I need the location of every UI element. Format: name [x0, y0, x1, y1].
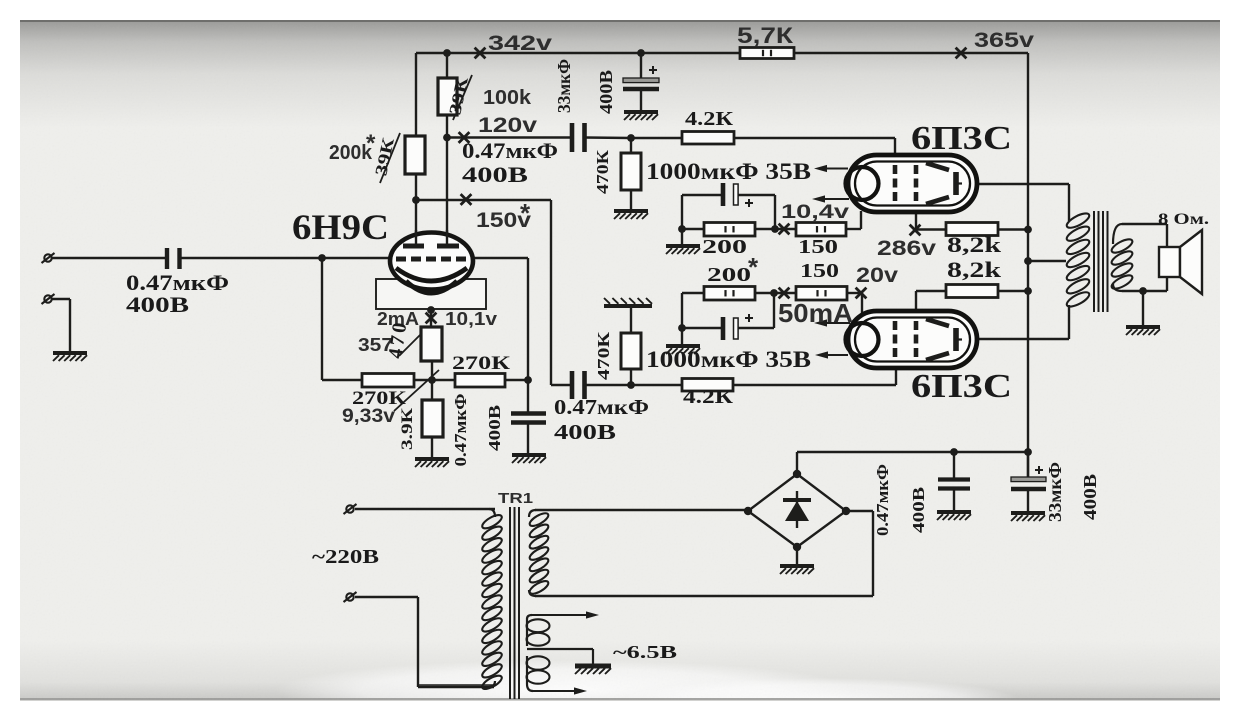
wire: 120v node to coupling cap	[447, 136, 572, 138]
svg-text:1000мкФ 35В: 1000мкФ 35В	[646, 159, 811, 184]
capacitor 0.47uF input	[167, 248, 180, 269]
wire: 6N9S cathode node stems (470 above, 3.9K below)	[431, 310, 432, 459]
wire: 200k resistor to 150v node	[415, 174, 417, 201]
wire: 150 up to upper tube cathode	[860, 211, 862, 229]
wire: lower screen to 8.2k to B+	[916, 291, 1028, 312]
svg-text:150: 150	[800, 260, 839, 282]
label 10,4v	[781, 201, 849, 223]
capacitor 0.47uF 400V cathodyne ground cap	[511, 414, 546, 423]
output transformer primary	[1065, 211, 1091, 310]
wire: PSU 0.47uF cap stems	[953, 452, 955, 512]
wire: 150v line down right side	[551, 200, 572, 385]
resistor 470K upper	[621, 153, 641, 190]
x-mark 20v	[856, 288, 867, 299]
node: upper bias left junction	[678, 225, 686, 233]
svg-text:286v: 286v	[877, 237, 936, 260]
resistor 39K/100k	[438, 78, 457, 115]
capacitor 33uF 400V PSU electrolytic (plus sign)	[1011, 466, 1046, 489]
wire: lower plate to output transformer primary bottom	[957, 305, 1069, 339]
svg-text:1000мкФ 35В: 1000мкФ 35В	[646, 347, 811, 372]
label 150v	[476, 198, 531, 232]
svg-text:9,33v: 9,33v	[342, 406, 395, 427]
svg-text:33мкФ: 33мкФ	[1045, 462, 1065, 522]
label 270K left	[352, 388, 406, 409]
output transformer secondary	[1110, 237, 1134, 292]
wire: mains terminal 1 to TR1 primary	[355, 509, 495, 517]
svg-text:3.9К: 3.9К	[399, 407, 416, 450]
label PSU 33uF rotated	[1045, 462, 1065, 522]
svg-text:8,2k: 8,2k	[947, 257, 1002, 282]
x-mark 342v	[475, 48, 486, 59]
wire: +342v top rail	[416, 52, 1028, 54]
wire: HV secondary bottom around to bridge right	[529, 511, 873, 596]
ground: heater winding tap	[575, 649, 611, 674]
svg-text:20v: 20v	[856, 264, 898, 287]
svg-text:8,2k: 8,2k	[947, 232, 1002, 257]
label TR1	[498, 490, 533, 507]
wire: mains terminal 2 around to TR1 primary bottom	[355, 597, 495, 687]
output transformer core	[1094, 211, 1108, 312]
op-amp/tube 6N9S socket box	[376, 279, 486, 309]
wire: lower 6P3S grid stem	[895, 366, 897, 385]
x-mark 10.4v	[779, 224, 790, 235]
label 8,2k upper	[947, 232, 1002, 257]
label 0.47uF mid	[554, 395, 649, 419]
svg-text:8 Ом.: 8 Ом.	[1158, 211, 1209, 228]
ground: upper 470K	[614, 211, 648, 219]
label 0.47uF cathodyne rotated	[451, 394, 470, 467]
wire: 39K/100k down through 120v node to right plate stem	[446, 115, 448, 246]
svg-text:365v: 365v	[974, 29, 1034, 52]
ground: speaker return	[1126, 327, 1160, 335]
svg-text:*: *	[748, 252, 759, 282]
diode bridge rectifier	[744, 470, 850, 551]
mains terminal 1	[344, 504, 357, 514]
resistor 150 upper	[796, 223, 846, 237]
ground: PSU 33uF	[1011, 513, 1045, 521]
wire: upper 470K stems	[630, 138, 632, 211]
wire: second grid from tube right side down to junction	[471, 258, 528, 380]
svg-text:6П3С: 6П3С	[911, 120, 1012, 157]
wire: 33uF top cap stems	[640, 53, 642, 112]
wire: 150v node horizontal run	[416, 199, 551, 201]
label 33uF top rotated	[554, 59, 574, 113]
wire: upper screen 286v to 8.2k to B+	[916, 213, 1028, 230]
svg-text:400В: 400В	[909, 487, 928, 533]
wire: lower node to ground	[681, 328, 683, 346]
ground: bridge negative	[780, 566, 814, 574]
capacitor 0.47uF lower coupling	[572, 371, 585, 399]
x-mark 286v	[910, 225, 921, 236]
resistor 4.2K lower	[682, 379, 733, 392]
svg-text:270К: 270К	[452, 353, 510, 374]
ground: PSU 0.47uF	[937, 512, 971, 520]
wire: upper 1000uF cap leads	[682, 195, 775, 229]
svg-text:0.47мкФ: 0.47мкФ	[451, 394, 470, 467]
arrow: upper cathode to 1000uF 35V	[814, 165, 848, 172]
label 5,7K	[737, 23, 794, 48]
wire: B+ to primary center tap	[1028, 260, 1066, 262]
x-mark 365v	[956, 48, 967, 59]
svg-text:~6.5В: ~6.5В	[613, 642, 677, 662]
label 8,2k lower	[947, 257, 1002, 282]
ground: 33uF top cap	[624, 112, 658, 120]
label 6P3S upper	[911, 120, 1012, 157]
svg-text:50mA: 50mA	[778, 298, 853, 328]
label PSU 400V rotated	[909, 487, 928, 533]
label 400V cathodyne rotated	[485, 405, 504, 451]
wire: input line to grid of 6N9S	[51, 257, 392, 259]
wire: HV secondary top to bridge left	[529, 510, 748, 517]
label 9,33v	[342, 406, 395, 427]
ground: 3.9K cathode resistor	[415, 459, 449, 467]
label 4.2K lower	[683, 386, 734, 408]
label PSU 400V-2 rotated	[1080, 474, 1100, 520]
node: B+/8.2k upper junction	[1024, 226, 1032, 234]
tube V2 6P3S lower envelope	[846, 311, 978, 368]
svg-text:400В: 400В	[596, 70, 616, 114]
node: rail/39K junction	[443, 49, 451, 57]
resistor 270K right	[455, 374, 505, 388]
ground: lower 200 bias	[666, 346, 700, 354]
node: rectifier/0.47uF junction	[950, 448, 958, 456]
node: B+/8.2k lower junction	[1024, 287, 1032, 295]
label 342v	[488, 32, 552, 55]
label 200* lower	[707, 252, 759, 286]
svg-text:200: 200	[707, 264, 751, 286]
wire: 150 down to lower tube cathode	[861, 293, 863, 317]
capacitor 33uF 400V top electrolytic (plus sign)	[623, 66, 659, 89]
slash strike through 39K label (left)	[380, 133, 400, 183]
tube V1 6P3S upper envelope	[846, 155, 978, 212]
label 0.47uF top	[462, 138, 558, 163]
wire: left plate stem of 6N9S	[415, 200, 417, 246]
node: 6N9S cathode junction on socket box	[427, 306, 435, 314]
tube U1 6N9S envelope	[390, 233, 473, 290]
svg-text:6П3С: 6П3С	[911, 368, 1012, 405]
resistor 150 lower	[796, 287, 847, 301]
label 39K upper rotated	[445, 74, 472, 116]
label ~220V	[312, 546, 379, 568]
resistor 470K lower	[621, 333, 641, 369]
label 400V input	[126, 292, 189, 317]
wire: lower cathode network row 20v	[682, 292, 862, 294]
node: rectifier/B+ junction	[1024, 448, 1032, 456]
arrow: upper heater	[812, 195, 849, 202]
wire: rail down-left to 200k resistor	[415, 53, 417, 136]
resistor 8.2k lower	[946, 285, 998, 298]
x-mark 120v	[459, 132, 470, 143]
label 0.47uF input	[126, 270, 229, 295]
wire: lower coupling cap to lower 4.2K run	[585, 384, 896, 386]
node: upper 470K top junction	[627, 134, 635, 142]
x-mark 150v	[461, 194, 472, 205]
label 20v	[856, 264, 898, 287]
wire: upper cathode network row 10.4v	[682, 228, 861, 230]
svg-text:100k: 100k	[483, 87, 532, 109]
wire: lower 1000uF cap leads	[682, 293, 774, 328]
node: 120v junction	[443, 134, 451, 142]
ground: input jack	[53, 353, 87, 361]
slash strike through 39K label (upper)	[453, 75, 472, 120]
node: lower coupling junction	[627, 381, 635, 389]
node: rail/33uF junction	[637, 49, 645, 57]
wire: node to upper 4.2K and grid of upper 6P3S	[631, 137, 895, 139]
node: B+/center tap junction	[1024, 257, 1032, 265]
svg-text:6Н9С: 6Н9С	[292, 207, 389, 247]
label 10,1v	[445, 309, 497, 329]
label 1000uF 35V lower	[646, 347, 811, 372]
svg-text:400В: 400В	[554, 420, 616, 444]
label 39K left rotated	[371, 135, 398, 177]
label 470 rotated	[384, 318, 411, 360]
svg-text:10,1v: 10,1v	[445, 309, 497, 329]
ground: inverted, lower 470K	[604, 298, 652, 306]
resistor 200 lower	[704, 287, 755, 301]
svg-text:0.47мкФ: 0.47мкФ	[873, 464, 892, 536]
resistor 200 upper	[704, 223, 755, 237]
svg-text:470К: 470К	[593, 149, 612, 194]
wire: lower 470K stems (inverted ground above)	[630, 307, 632, 385]
arrow: lower cathode to 1000uF 35V	[815, 351, 848, 358]
svg-text:0.47мкФ: 0.47мкФ	[462, 138, 558, 163]
wire: junction down through 0.47uF 400V cap to ground	[527, 380, 529, 455]
wire: bridge bottom to ground	[796, 547, 798, 566]
label 286v	[877, 237, 936, 260]
label ~6.5V	[613, 642, 677, 662]
resistor 270K left	[362, 374, 414, 388]
label 120v	[478, 114, 537, 137]
transformer TR1 primary winding	[480, 512, 503, 691]
svg-text:~220В: ~220В	[312, 546, 379, 568]
label 150 lower	[800, 260, 839, 282]
wire: 270K row	[414, 379, 528, 381]
label 400V mid	[554, 420, 616, 444]
node: upper bias mid junction	[771, 225, 779, 233]
label 470K lower rotated	[594, 331, 613, 380]
label 2mA	[377, 309, 419, 329]
label 400V top rotated	[596, 70, 616, 114]
capacitor 1000uF 35V lower electrolytic	[723, 314, 753, 340]
wire: secondary to speaker top	[1113, 224, 1167, 248]
mains terminal 2	[344, 592, 357, 602]
x-mark 2mA/10.1v	[426, 313, 437, 324]
svg-text:400В: 400В	[462, 162, 528, 187]
node: grid2 junction	[524, 376, 532, 384]
label 357	[358, 335, 393, 355]
label 150 upper	[798, 236, 838, 258]
node: speaker ground junction	[1139, 287, 1147, 295]
svg-text:*: *	[366, 130, 376, 157]
svg-text:TR1: TR1	[498, 490, 533, 507]
tube 6N9S cathode arcs	[396, 268, 467, 293]
label 8 Ohm	[1158, 211, 1209, 228]
label 400V top	[462, 162, 528, 187]
svg-text:10,4v: 10,4v	[781, 201, 849, 223]
arrow: lower heater 50mA	[814, 319, 850, 326]
input terminal bottom	[42, 294, 55, 304]
resistor 4.2K upper	[682, 132, 734, 145]
node: lower bias mid junction	[770, 289, 778, 297]
svg-text:400В: 400В	[126, 292, 189, 317]
wire: upper node to ground	[681, 229, 683, 246]
resistor 8.2k upper	[946, 223, 998, 236]
svg-text:400В: 400В	[485, 405, 504, 451]
capacitor 0.47uF PSU	[938, 480, 970, 489]
label 1000uF 35V upper	[646, 159, 811, 184]
svg-text:400В: 400В	[1080, 474, 1100, 520]
resistor 200k/39K	[405, 136, 425, 174]
label PSU 0.47uF rotated	[873, 464, 892, 536]
ground: upper 200 bias	[666, 246, 700, 254]
node: lower bias left junction	[678, 324, 686, 332]
svg-text:4.2К: 4.2К	[683, 386, 734, 408]
wire: upper grid stem	[894, 138, 896, 168]
capacitor 1000uF 35V upper electrolytic	[723, 183, 753, 207]
transformer TR1 HV secondary winding	[528, 511, 550, 596]
label 6N9S	[292, 207, 389, 247]
input terminal top	[42, 253, 55, 263]
label 470K upper rotated	[593, 149, 612, 194]
tube 6N9S grid dashes	[396, 257, 466, 262]
transformer TR1 core	[510, 507, 519, 699]
wire: secondary bottom to speaker and ground	[1113, 276, 1167, 327]
label 4.2K upper	[685, 108, 734, 130]
capacitor 0.47uF upper coupling	[572, 123, 585, 152]
svg-text:470К: 470К	[594, 331, 613, 380]
transformer TR1 heater winding 6.5V	[527, 615, 594, 691]
wire: coupling cap to 470K node	[585, 136, 631, 139]
svg-text:150: 150	[798, 236, 838, 258]
svg-text:200: 200	[702, 236, 747, 258]
label 365v	[974, 29, 1034, 52]
svg-text:342v: 342v	[488, 32, 552, 55]
resistor 470 cathode	[421, 327, 442, 361]
slash near 357 / 470	[399, 334, 421, 356]
svg-text:*: *	[520, 198, 531, 228]
tube 6N9S anode bars	[403, 230, 459, 246]
svg-text:0.47мкФ: 0.47мкФ	[554, 395, 649, 419]
wire: PSU 33uF cap stems	[1027, 452, 1029, 513]
wire: B+ 365v vertical line	[1027, 53, 1029, 478]
slash near 270K / 9.33v	[394, 370, 439, 411]
svg-text:120v: 120v	[478, 114, 537, 137]
label 200k	[329, 130, 376, 164]
wire: upper plate to output transformer primary top	[957, 184, 1069, 221]
node: input/grid junction	[318, 254, 326, 262]
x-mark lower bias	[779, 288, 790, 299]
wire: rail to 39K/100k resistor	[446, 53, 448, 78]
node: 150v junction	[412, 196, 420, 204]
label 100k	[483, 87, 532, 109]
wire: bridge plus output to B+	[797, 452, 1028, 474]
resistor 3.9K	[422, 400, 443, 437]
heater lead arrows	[532, 611, 599, 694]
svg-text:5,7К: 5,7К	[737, 23, 794, 48]
label 270K right	[452, 353, 510, 374]
label 50mA	[778, 298, 853, 328]
label 200 upper	[702, 236, 747, 258]
svg-text:33мкФ: 33мкФ	[554, 59, 574, 113]
speaker 8 Ohm	[1159, 230, 1202, 294]
ground: 0.47uF 400V cap	[512, 455, 546, 463]
resistor 5.7K rail	[740, 48, 794, 59]
wire: input node down to 270K divider	[322, 258, 362, 380]
label 6P3S lower	[911, 368, 1012, 405]
label 3.9K rotated	[399, 407, 416, 450]
node: cathode divider junction	[428, 376, 436, 384]
wire: lower input terminal to ground	[52, 299, 70, 353]
svg-text:4.2К: 4.2К	[685, 108, 734, 130]
